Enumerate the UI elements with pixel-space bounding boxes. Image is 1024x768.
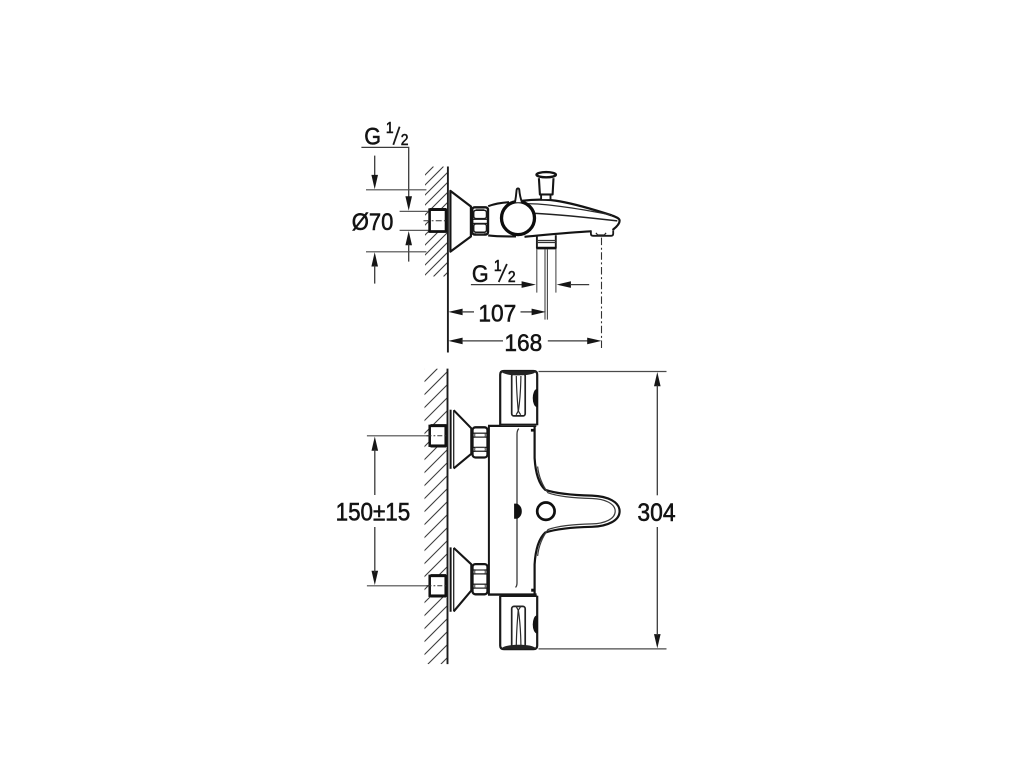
svg-text:G: G	[364, 122, 381, 150]
svg-text:1: 1	[386, 120, 394, 137]
svg-text:168: 168	[504, 329, 542, 356]
svg-text:Ø70: Ø70	[352, 208, 394, 235]
svg-text:G: G	[472, 260, 489, 288]
svg-text:1: 1	[494, 258, 502, 275]
svg-text:2: 2	[401, 132, 409, 149]
svg-text:304: 304	[637, 499, 675, 527]
svg-text:150±15: 150±15	[336, 498, 411, 527]
svg-text:2: 2	[508, 269, 516, 286]
svg-text:107: 107	[478, 300, 516, 327]
